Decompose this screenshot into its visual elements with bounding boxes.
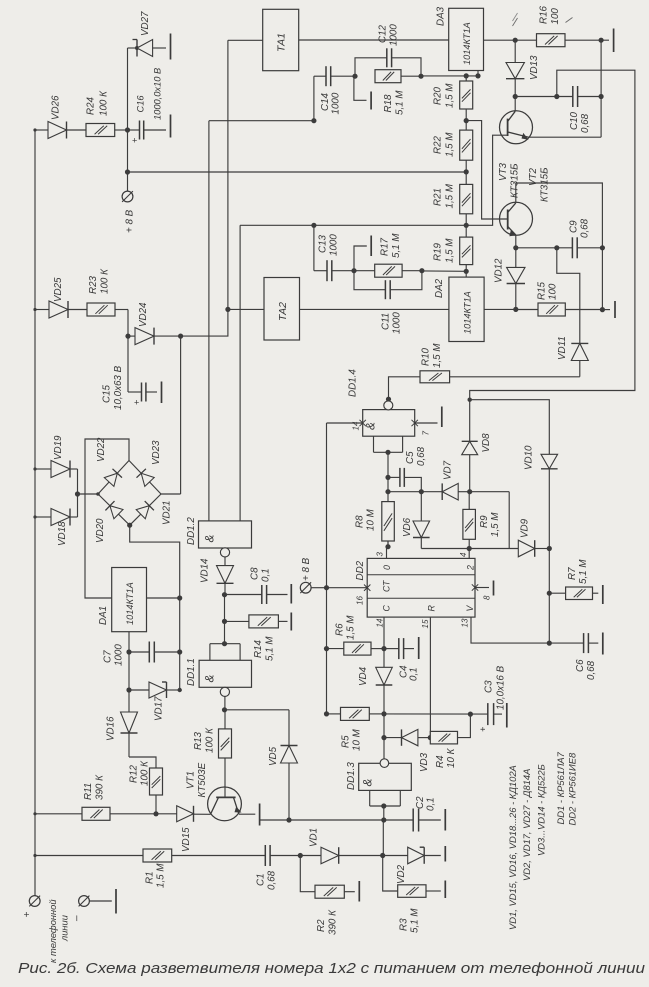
svg-text:R11: R11: [83, 783, 94, 800]
svg-text:1000: 1000: [114, 644, 125, 666]
op-amp DA1 1014KT1A: [98, 568, 147, 632]
capacitor C14 1000: [314, 66, 358, 121]
svg-text:R23: R23: [88, 275, 99, 294]
resistor R8 10M: [355, 502, 395, 550]
resistor R16 100: [515, 5, 609, 46]
capacitor C7 1000: [103, 642, 183, 667]
svg-text:VD24: VD24: [138, 302, 149, 327]
svg-text:VD16: VD16: [106, 716, 117, 741]
svg-text:R8: R8: [355, 515, 366, 528]
wire: riser to VD27: [128, 46, 140, 130]
wire: right-edge return bus: [470, 70, 635, 441]
resistor R20 1,5M: [433, 76, 473, 123]
wire: DD1.1 input riser: [222, 595, 227, 644]
node: VD26 anode junction: [33, 128, 36, 131]
svg-text:C: C: [382, 605, 392, 612]
svg-text:ТА1: ТА1: [276, 33, 288, 52]
counter DD2 K561IE8: [355, 558, 476, 617]
capacitor C16 1000,0x10V electrolytic: [128, 68, 166, 146]
wire: +8V node riser: [125, 130, 130, 191]
svg-text:Рис. 2б. Схема разветвителя но: Рис. 2б. Схема разветвителя номера 1х2 с…: [18, 960, 646, 977]
svg-text:1000,0x10 В: 1000,0x10 В: [153, 68, 163, 120]
resistor R4 10K: [430, 714, 470, 768]
svg-text:R9: R9: [479, 515, 490, 528]
wire: VD3 node riser: [381, 714, 386, 740]
svg-text:1014КТ1А: 1014КТ1А: [462, 22, 472, 65]
diode VD2 zener: [383, 847, 441, 884]
wire: bridge bottom node to DA1 right-side vertical: [130, 525, 180, 690]
svg-text:1014КТ1А: 1014КТ1А: [125, 582, 135, 625]
transistor VT1 KT503E: [186, 758, 256, 821]
svg-text:КТ315Б: КТ315Б: [540, 167, 551, 202]
diode VD15: [156, 806, 211, 852]
svg-text:5,1 М: 5,1 М: [391, 233, 402, 258]
svg-text:VD7: VD7: [443, 460, 454, 480]
svg-text:C13: C13: [318, 234, 329, 253]
svg-text:+ 8 В: + 8 В: [125, 209, 136, 233]
logic gate DD1.1: [186, 641, 252, 710]
svg-text:R19: R19: [433, 242, 444, 261]
svg-text:VD19: VD19: [53, 435, 64, 460]
node: +8V terminal junction (right): [324, 585, 329, 590]
svg-text:100 К: 100 К: [99, 90, 110, 116]
svg-text:VD3...VD14 - КД522Б: VD3...VD14 - КД522Б: [536, 764, 547, 856]
pin 8 of DD2 (ground): [472, 581, 494, 601]
svg-text:VD17: VD17: [154, 696, 165, 721]
svg-text:R7: R7: [567, 567, 578, 580]
resistor R3 5,1M: [383, 856, 441, 934]
wire: DD1.1 output to VD5: [225, 710, 290, 746]
ground bar after C6: [602, 633, 604, 655]
svg-text:R3: R3: [399, 918, 410, 931]
diode VD6: [402, 492, 430, 549]
pin 13 of DD2 (enable V): [461, 617, 550, 643]
svg-text:1000: 1000: [331, 92, 342, 114]
svg-text:10,0x16 В: 10,0x16 В: [496, 665, 507, 710]
svg-text:13: 13: [461, 618, 470, 627]
svg-text:R17: R17: [380, 237, 391, 256]
svg-text:C11: C11: [381, 313, 392, 330]
svg-text:16: 16: [356, 596, 365, 605]
svg-text:VD2: VD2: [396, 864, 407, 884]
resistor R13 100K: [193, 710, 232, 758]
note: diode and IC types list: [507, 751, 578, 930]
diode VD17 zener: [126, 682, 181, 721]
wire: emitter dogleg to VD11: [557, 248, 580, 344]
capacitor C11 1000 (parallel): [354, 271, 422, 334]
svg-text:VD21: VD21: [162, 500, 173, 525]
wire: DD1.2 input bus from R21/R19 node: [240, 223, 466, 228]
svg-text:C7: C7: [103, 650, 114, 663]
svg-text:C9: C9: [569, 220, 580, 233]
diode VD1: [300, 828, 385, 864]
ground bar after VD27: [170, 34, 172, 60]
pin 16 of DD2 (power): [327, 585, 371, 606]
diode bridge VD20-VD23: [95, 437, 173, 543]
svg-text:VD23: VD23: [151, 440, 162, 465]
diode VD13: [506, 40, 540, 99]
svg-text:R18: R18: [383, 94, 394, 113]
ground bar after C8: [290, 584, 292, 604]
stray scan marks near R16: [513, 13, 573, 26]
ground bar after C16: [170, 115, 172, 138]
wire: VD19/VD18 cathode join: [75, 469, 98, 517]
svg-text:+ 8 В: + 8 В: [301, 557, 312, 581]
svg-text:R10: R10: [421, 347, 432, 366]
svg-text:R: R: [427, 605, 437, 612]
svg-text:VD26: VD26: [51, 95, 62, 120]
wire: DA2 output to VD12 node: [484, 308, 516, 310]
capacitor C1 0,68: [256, 845, 303, 890]
svg-text:1000: 1000: [392, 312, 403, 334]
svg-text:1000: 1000: [329, 234, 340, 256]
svg-text:100: 100: [550, 8, 561, 25]
pin 14 of DD2 (clock C): [376, 617, 385, 649]
svg-text:100 К: 100 К: [140, 760, 151, 786]
wire: DA3 input bus: [421, 71, 481, 79]
resistor R24 100K: [86, 90, 115, 137]
svg-text:DA3: DA3: [436, 6, 447, 26]
node: VD24 anode junction: [125, 334, 130, 339]
svg-text:&: &: [366, 422, 378, 430]
svg-text:100 К: 100 К: [100, 268, 111, 294]
resistor R11 390K: [33, 774, 158, 820]
svg-text:0,68: 0,68: [580, 218, 591, 238]
ground bar at VT1 emitter: [259, 804, 261, 826]
svg-text:5,1 М: 5,1 М: [578, 559, 589, 584]
svg-text:1,5 М: 1,5 М: [490, 512, 501, 537]
wire: bridge right node up to VD24 node: [161, 336, 181, 494]
svg-text:R5: R5: [341, 735, 352, 748]
svg-text:10 М: 10 М: [366, 508, 377, 531]
svg-text:14: 14: [376, 618, 385, 627]
wire: DD2 outputs row: [421, 546, 518, 551]
resistor R22 1,5M: [433, 121, 473, 175]
svg-text:DD1.3: DD1.3: [346, 762, 357, 790]
svg-text:VD9: VD9: [520, 518, 531, 538]
resistor R19 1,5M: [433, 225, 473, 274]
svg-text:VT3: VT3: [498, 162, 509, 181]
svg-text:100: 100: [548, 283, 559, 300]
svg-text:+: +: [132, 136, 137, 146]
svg-text:КТ315Б: КТ315Б: [510, 163, 521, 198]
svg-text:DD1.2: DD1.2: [186, 517, 197, 545]
svg-text:5,1 М: 5,1 М: [410, 908, 421, 933]
resistor R2 390K: [300, 856, 355, 936]
label: to telephone line: [48, 899, 70, 963]
wire: VD10 branch: [468, 398, 550, 455]
resistor R6 1,5M: [324, 615, 387, 655]
ground bar after C4: [418, 637, 420, 659]
diode VD26: [48, 95, 67, 139]
node: C16/+8V junction: [125, 127, 130, 132]
svg-text:R6: R6: [335, 623, 346, 636]
ground bar after C15: [161, 382, 163, 404]
svg-text:R14: R14: [253, 639, 264, 658]
svg-text:390 К: 390 К: [328, 909, 339, 935]
svg-text:+: +: [22, 912, 33, 918]
wire: DD1.2 input bus from C14 node: [209, 118, 317, 123]
transformer TA2: [228, 278, 449, 341]
pin 7 ground of DD1.4: [412, 407, 442, 436]
svg-text:к телефонной: к телефонной: [48, 899, 58, 963]
pin 3 of DD2 (output 0): [376, 547, 387, 559]
diode VD8: [462, 433, 492, 492]
logic gate DD1.2: [186, 121, 252, 557]
svg-text:10,0x63 В: 10,0x63 В: [113, 365, 124, 410]
svg-text:–: –: [72, 915, 83, 922]
capacitor C5 0,68: [388, 446, 427, 494]
resistor R15 100: [516, 281, 603, 316]
node: DA1 right pin junction: [147, 595, 183, 600]
node: line row left junction: [33, 854, 36, 857]
svg-text:DA2: DA2: [434, 278, 445, 298]
svg-text:R24: R24: [86, 96, 97, 115]
svg-text:R2: R2: [316, 919, 327, 932]
svg-text:VD10: VD10: [524, 445, 535, 470]
svg-text:VD1, VD15, VD16, VD18...26 - К: VD1, VD15, VD16, VD18...26 - КД102А: [507, 765, 518, 930]
pin 4 of DD2 (output 2): [459, 549, 469, 559]
transistor VT2 KT315B: [500, 167, 551, 248]
ground bar after R16: [613, 29, 615, 53]
resistor R23 100K: [87, 268, 115, 316]
wire: VD16 to R12: [129, 757, 156, 768]
svg-text:390 К: 390 К: [95, 774, 106, 800]
capacitor C12 1000 (parallel): [355, 24, 421, 77]
svg-text:10 К: 10 К: [446, 747, 457, 768]
svg-text:1,5 М: 1,5 М: [156, 863, 167, 888]
svg-text:VD18: VD18: [57, 521, 68, 546]
svg-text:C16: C16: [136, 95, 146, 113]
svg-text:VD11: VD11: [557, 336, 568, 360]
svg-text:1000: 1000: [389, 24, 400, 46]
svg-text:1,5 М: 1,5 М: [445, 238, 456, 263]
resistor R14 5,1M: [225, 615, 288, 661]
op-amp DA3 1014KT1A: [436, 6, 484, 70]
svg-text:VD20: VD20: [95, 518, 106, 543]
diode VD7: [442, 460, 472, 500]
svg-text:R4: R4: [435, 755, 446, 768]
terminal +8V (left): [122, 191, 135, 233]
svg-text:DD2 - КР561ИЕ8: DD2 - КР561ИЕ8: [567, 752, 578, 825]
svg-text:DD1.1: DD1.1: [186, 658, 197, 686]
wire: riser bus to line row: [382, 820, 384, 856]
svg-text:1014КТ1А: 1014КТ1А: [463, 291, 473, 334]
capacitor C13 1000: [314, 225, 357, 281]
svg-text:&: &: [363, 778, 375, 786]
wire: VT3 base from R21/R19 node: [466, 135, 507, 225]
svg-text:R22: R22: [433, 135, 444, 154]
capacitor C9 0,68: [513, 218, 605, 258]
wire: oscillator node row: [388, 491, 442, 493]
resistor R21 1,5M: [433, 172, 473, 228]
wire: node to R9 column riser: [470, 492, 510, 549]
wire: VD26-R24 row: [35, 129, 128, 131]
svg-text:VD5: VD5: [268, 746, 279, 766]
svg-text:4: 4: [459, 552, 468, 557]
svg-text:C6: C6: [575, 659, 586, 672]
svg-text:R15: R15: [537, 281, 548, 300]
ground bar after VD2: [444, 846, 446, 862]
node: DD1.1 output junction: [222, 707, 227, 712]
wire: TA1/TA2 left-side vertical: [225, 40, 230, 312]
svg-text:VD2, VD17, VD27 - Д814А: VD2, VD17, VD27 - Д814А: [521, 769, 532, 881]
resistor R5 10M: [324, 707, 384, 751]
svg-text:0,68: 0,68: [416, 446, 427, 466]
svg-text:R13: R13: [193, 731, 204, 750]
diode VD14: [200, 557, 234, 595]
svg-text:DD2: DD2: [355, 560, 366, 580]
transformer TA1: [228, 9, 449, 70]
resistor R17 5,1M with C11 parallel: [354, 233, 425, 278]
svg-text:C15: C15: [102, 384, 113, 403]
diode VD11: [557, 336, 588, 376]
wire: common bus y=820: [260, 817, 414, 822]
transistor VT3 KT315B: [498, 97, 533, 199]
svg-text:0,1: 0,1: [261, 568, 272, 582]
ground bar after R14: [290, 613, 292, 631]
svg-text:0,1: 0,1: [426, 797, 437, 811]
diode VD12 zener: [494, 248, 526, 312]
diode VD4: [358, 649, 392, 717]
node: VD24 cathode junction: [178, 334, 183, 339]
resistor R1 1,5M: [35, 849, 265, 888]
svg-text:0,68: 0,68: [267, 870, 278, 890]
wire: R16 common vertical to VT3 emitter: [529, 40, 602, 137]
svg-text:C1: C1: [256, 873, 267, 886]
capacitor C8 0,1: [222, 567, 288, 604]
svg-text:0,68: 0,68: [586, 660, 597, 680]
svg-text:&: &: [205, 534, 217, 542]
svg-text:1,5 М: 1,5 М: [445, 83, 456, 108]
svg-text:C12: C12: [378, 24, 389, 43]
wire: DD1.4 inputs riser: [385, 452, 390, 546]
svg-text:R20: R20: [433, 86, 444, 105]
capacitor C3 10,0x16V electrolytic: [478, 665, 507, 732]
svg-text:C14: C14: [320, 92, 331, 111]
ground bar after R7: [602, 585, 604, 604]
svg-text:R16: R16: [539, 5, 550, 24]
wire: VD10/VD9 column down: [547, 549, 552, 646]
capacitor C6 0,68: [549, 633, 598, 680]
diode VD10: [524, 445, 558, 549]
svg-text:0,1: 0,1: [409, 667, 420, 681]
resistor R10 1,5M: [389, 343, 580, 400]
svg-text:линии: линии: [60, 915, 70, 942]
ground stub between C13 and R17: [354, 236, 371, 271]
ground bar after R15: [614, 301, 616, 318]
svg-text:R1: R1: [145, 871, 156, 884]
svg-text:VD1: VD1: [309, 828, 320, 847]
logic gate DD1.3: [346, 759, 411, 820]
wire: VD24 node to TA-left vertical: [181, 309, 228, 336]
svg-text:8: 8: [483, 595, 492, 600]
diode VD9: [518, 518, 552, 556]
diode VD25: [49, 277, 68, 318]
logic gate DD1.4: [348, 369, 415, 455]
svg-text:10 М: 10 М: [352, 728, 363, 751]
svg-text:VD13: VD13: [529, 55, 540, 80]
terminal - of telephone line: [72, 896, 112, 922]
capacitor C2 0,1: [413, 796, 441, 832]
wire: bridge top node to DA1 left pin: [85, 439, 129, 598]
svg-text:VD4: VD4: [358, 666, 369, 686]
pin 15 of DD2 (reset R): [421, 617, 430, 738]
svg-text:СТ: СТ: [382, 580, 392, 592]
svg-text:VD14: VD14: [200, 558, 211, 583]
op-amp DA2 1014KT1A: [434, 271, 484, 341]
caption: figure title: [18, 960, 646, 977]
svg-text:1,5 М: 1,5 М: [432, 343, 443, 368]
wire: DD1.3 output riser: [383, 738, 385, 759]
svg-text:VD22: VD22: [96, 437, 107, 462]
ground bar after C3: [506, 703, 508, 728]
svg-text:КТ503Е: КТ503Е: [197, 762, 208, 797]
resistor R18 5,1M with C12 parallel: [375, 70, 424, 115]
svg-text:1,5 М: 1,5 М: [445, 132, 456, 157]
svg-text:VD8: VD8: [481, 433, 492, 453]
wire: VD25-R23 row: [33, 308, 128, 336]
svg-text:14: 14: [352, 421, 361, 430]
capacitor C4 0,1: [384, 638, 420, 681]
diode VD3: [384, 729, 433, 772]
svg-text:DD1 - КР561ЛА7: DD1 - КР561ЛА7: [555, 751, 566, 824]
resistor R7 5,1M: [549, 559, 598, 600]
svg-text:R12: R12: [129, 764, 140, 783]
terminal + of telephone line: [22, 856, 40, 918]
wire: DA1 bottom pin: [126, 632, 131, 655]
ground stub between C14 and R18: [354, 76, 371, 109]
wire: C9 right to common: [600, 248, 610, 312]
svg-text:+: +: [134, 398, 139, 408]
wire: integrator row to C3: [384, 712, 488, 717]
diode VD24: [128, 302, 181, 345]
svg-text:1,5 М: 1,5 М: [445, 183, 456, 208]
diode VD27 zener D814A: [133, 11, 167, 57]
svg-text:5,1 М: 5,1 М: [395, 90, 406, 115]
svg-text:VD3: VD3: [419, 752, 430, 772]
svg-text:0: 0: [382, 565, 392, 570]
svg-text:DD1.4: DD1.4: [348, 369, 359, 397]
svg-text:VD6: VD6: [402, 517, 413, 537]
svg-text:5,1 М: 5,1 М: [265, 636, 276, 661]
svg-text:C5: C5: [405, 451, 416, 464]
terminal +8V (right): [300, 557, 326, 593]
wire: DD1.4 pin14 supply bus: [327, 420, 366, 714]
svg-text:1,5 М: 1,5 М: [346, 615, 357, 640]
wire: left telephone-line bus: [34, 130, 36, 856]
svg-text:VT1: VT1: [186, 771, 197, 789]
svg-text:7: 7: [422, 431, 431, 436]
svg-text:VD25: VD25: [53, 277, 64, 302]
resistor R12 100K: [129, 760, 163, 814]
wire: VT2 base from R20/R22 node: [466, 121, 508, 219]
svg-text:+: +: [478, 727, 488, 732]
svg-text:0,68: 0,68: [580, 113, 591, 133]
svg-text:2: 2: [466, 565, 476, 571]
ground bar at minus terminal: [115, 889, 117, 914]
svg-text:DA1: DA1: [98, 606, 109, 625]
capacitor C15 10,0x63V electrolytic: [102, 336, 158, 410]
svg-text:&: &: [205, 674, 217, 682]
wire: R17 node to DA2 input: [422, 270, 466, 272]
diode VD5: [268, 746, 298, 821]
ground bar after R3: [444, 881, 446, 899]
svg-text:C2: C2: [415, 796, 426, 809]
diode VD16: [106, 652, 138, 757]
svg-text:VD15: VD15: [181, 827, 192, 852]
diode VD19: [33, 435, 77, 478]
